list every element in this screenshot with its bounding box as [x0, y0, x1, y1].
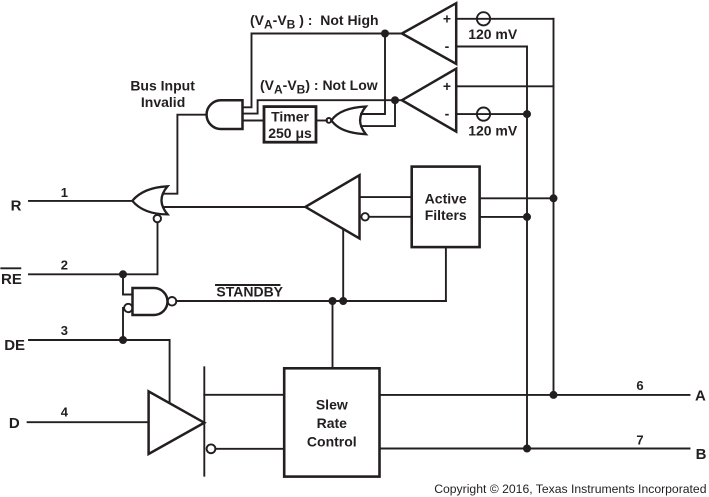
wire comp2 output branch down to NOR bottom input	[361, 100, 395, 126]
wire DE pin 3 to driver enable	[29, 340, 170, 403]
svg-text:STANDBY: STANDBY	[216, 283, 283, 299]
svg-text:D: D	[9, 415, 20, 432]
NAND gate U7 (standby, pointing right)	[133, 288, 168, 315]
svg-text:4: 4	[61, 404, 69, 419]
wire active filters bottom to receiver bubble	[369, 216, 412, 218]
svg-text:DE: DE	[4, 337, 25, 354]
node DE junction	[119, 336, 127, 344]
wire timer to AND input	[243, 120, 265, 122]
node RE junction	[119, 270, 127, 278]
wire R pin 1	[29, 200, 132, 202]
active filters box B1	[412, 167, 480, 248]
wire comp1 +input to rail A	[456, 18, 553, 20]
slew rate control box B2	[284, 368, 379, 476]
node active bottom output rail B junction	[523, 213, 531, 221]
wire active filters top to receiver input	[360, 196, 412, 198]
svg-text:R: R	[11, 198, 22, 215]
node comp2 -input rail B junction	[523, 110, 531, 118]
wire active filters top output to rail A	[480, 197, 554, 199]
wire receiver output to OR gate input	[164, 206, 306, 208]
RE overline	[1, 267, 20, 269]
wire rail B vertical	[526, 47, 528, 449]
bubble NAND lower input	[124, 304, 132, 312]
wire B line pin 7	[380, 448, 690, 450]
receiver buffer U6 (pointing left)	[305, 175, 359, 238]
svg-text:Copyright © 2016, Texas Instru: Copyright © 2016, Texas Instruments Inco…	[434, 482, 706, 496]
svg-text:120 mV: 120 mV	[468, 26, 518, 42]
node A line junction	[550, 391, 558, 399]
node active top output rail A junction	[550, 194, 558, 202]
svg-text:Slew: Slew	[316, 397, 348, 413]
timer box T1	[264, 107, 316, 143]
wire driver complement path to slew rate control	[215, 448, 284, 450]
svg-text:120 mV: 120 mV	[468, 123, 518, 139]
OR gate U5 (R output gate, pointing left)	[132, 186, 167, 214]
wire driver true path to slew rate control	[204, 394, 284, 396]
wire RE junction down to NAND top input	[123, 274, 133, 294]
wire rail A vertical	[553, 19, 555, 395]
wire AND output (Bus Input Invalid) down to OR gate input	[164, 115, 207, 194]
svg-text:250 μs: 250 μs	[268, 125, 312, 141]
wire STANDBY from NAND output to active filters	[176, 300, 446, 302]
NOR gate U4 (pointing left)	[331, 107, 366, 135]
bubble driver complement	[207, 444, 216, 453]
svg-text:RE: RE	[1, 271, 22, 288]
wire D pin 4	[28, 421, 149, 423]
svg-text:6: 6	[636, 378, 643, 393]
node comp1 output junction	[381, 30, 389, 38]
node B line junction	[523, 445, 531, 453]
svg-text:A: A	[695, 387, 706, 404]
AND gate U3 (bus input invalid, pointing left)	[207, 100, 243, 129]
bubble receiver inverting input	[361, 213, 368, 220]
svg-text:7: 7	[636, 433, 643, 448]
svg-text:-: -	[445, 106, 450, 122]
bubble NAND output	[168, 297, 177, 306]
svg-text:1: 1	[61, 185, 68, 200]
bubble NOR output	[326, 118, 331, 123]
svg-text:Invalid: Invalid	[141, 94, 185, 110]
node standby-slew junction	[329, 297, 337, 305]
wire driver output rail	[203, 367, 205, 475]
svg-text:+: +	[443, 11, 451, 27]
svg-text:Timer: Timer	[271, 109, 309, 125]
driver buffer U8 (pointing right)	[149, 391, 205, 454]
offset source 120mV V2	[477, 108, 490, 121]
comparator U2 (bottom, VA-VB Not Low)	[402, 69, 456, 132]
wire A line pin 6	[380, 394, 690, 396]
svg-text:Rate: Rate	[317, 415, 348, 431]
svg-text:Filters: Filters	[425, 207, 467, 223]
node standby-receiver junction	[339, 297, 347, 305]
svg-text:B: B	[696, 446, 707, 463]
wire standby up to receiver enable	[342, 229, 344, 301]
wire comp2 -input to rail B	[456, 113, 527, 115]
wire timer output to NOR bubble	[316, 120, 327, 122]
wire active filters bottom output to rail B	[480, 216, 527, 218]
STANDBY overline	[216, 284, 280, 286]
wire standby down to slew rate control	[332, 301, 334, 368]
svg-text:2: 2	[61, 258, 68, 273]
bubble OR enable	[154, 215, 161, 222]
wire comp1 -input to rail B	[456, 46, 527, 48]
svg-text:-: -	[445, 38, 450, 54]
wire DE junction up to NAND bubble input	[123, 308, 124, 340]
svg-text:+: +	[443, 78, 451, 94]
svg-text:3: 3	[61, 323, 68, 338]
comparator U1 (top, VA-VB Not High)	[402, 3, 456, 64]
wire comp1 output branch down to NOR top input	[361, 34, 385, 115]
wire comp2 +input to rail A	[456, 85, 553, 87]
wire active filters bottom pin to standby line	[445, 247, 447, 301]
svg-text:Control: Control	[307, 434, 357, 450]
offset source 120mV V1	[477, 12, 490, 25]
svg-text:Bus Input: Bus Input	[130, 77, 195, 93]
wire RE pin 2 to enable bubble	[29, 222, 158, 274]
node comp2 output junction	[391, 96, 399, 104]
wire comp2 output (Not Low) to AND input	[243, 100, 402, 113]
svg-text:Active: Active	[425, 191, 467, 207]
wire comp1 output (Not High) to AND input	[243, 34, 402, 108]
